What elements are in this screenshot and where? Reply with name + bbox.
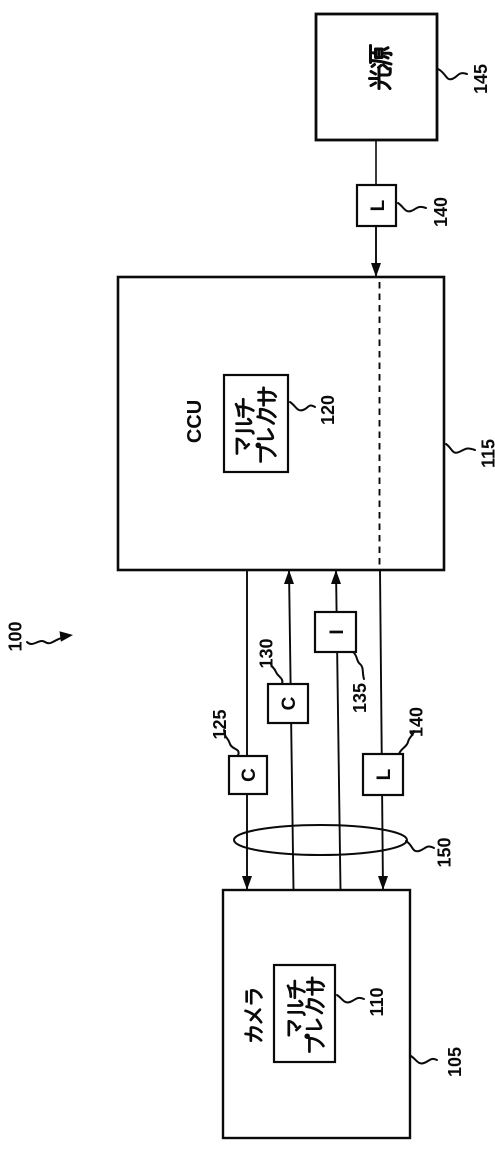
svg-text:145: 145 bbox=[471, 64, 491, 94]
svg-text:125: 125 bbox=[210, 709, 230, 739]
svg-text:150: 150 bbox=[435, 837, 455, 867]
svg-text:140: 140 bbox=[407, 707, 427, 737]
svg-text:130: 130 bbox=[257, 638, 277, 668]
svg-text:120: 120 bbox=[318, 395, 338, 425]
svg-text:I: I bbox=[327, 629, 348, 634]
svg-text:L: L bbox=[368, 199, 389, 211]
svg-text:105: 105 bbox=[445, 1047, 465, 1077]
svg-text:C: C bbox=[279, 696, 300, 710]
svg-text:C: C bbox=[239, 768, 260, 782]
svg-text:110: 110 bbox=[367, 987, 387, 1016]
svg-text:115: 115 bbox=[479, 439, 495, 468]
svg-text:140: 140 bbox=[431, 197, 451, 227]
svg-text:135: 135 bbox=[350, 683, 370, 713]
svg-text:100: 100 bbox=[6, 621, 26, 651]
svg-text:CCU: CCU bbox=[184, 400, 206, 443]
svg-text:L: L bbox=[374, 768, 395, 780]
